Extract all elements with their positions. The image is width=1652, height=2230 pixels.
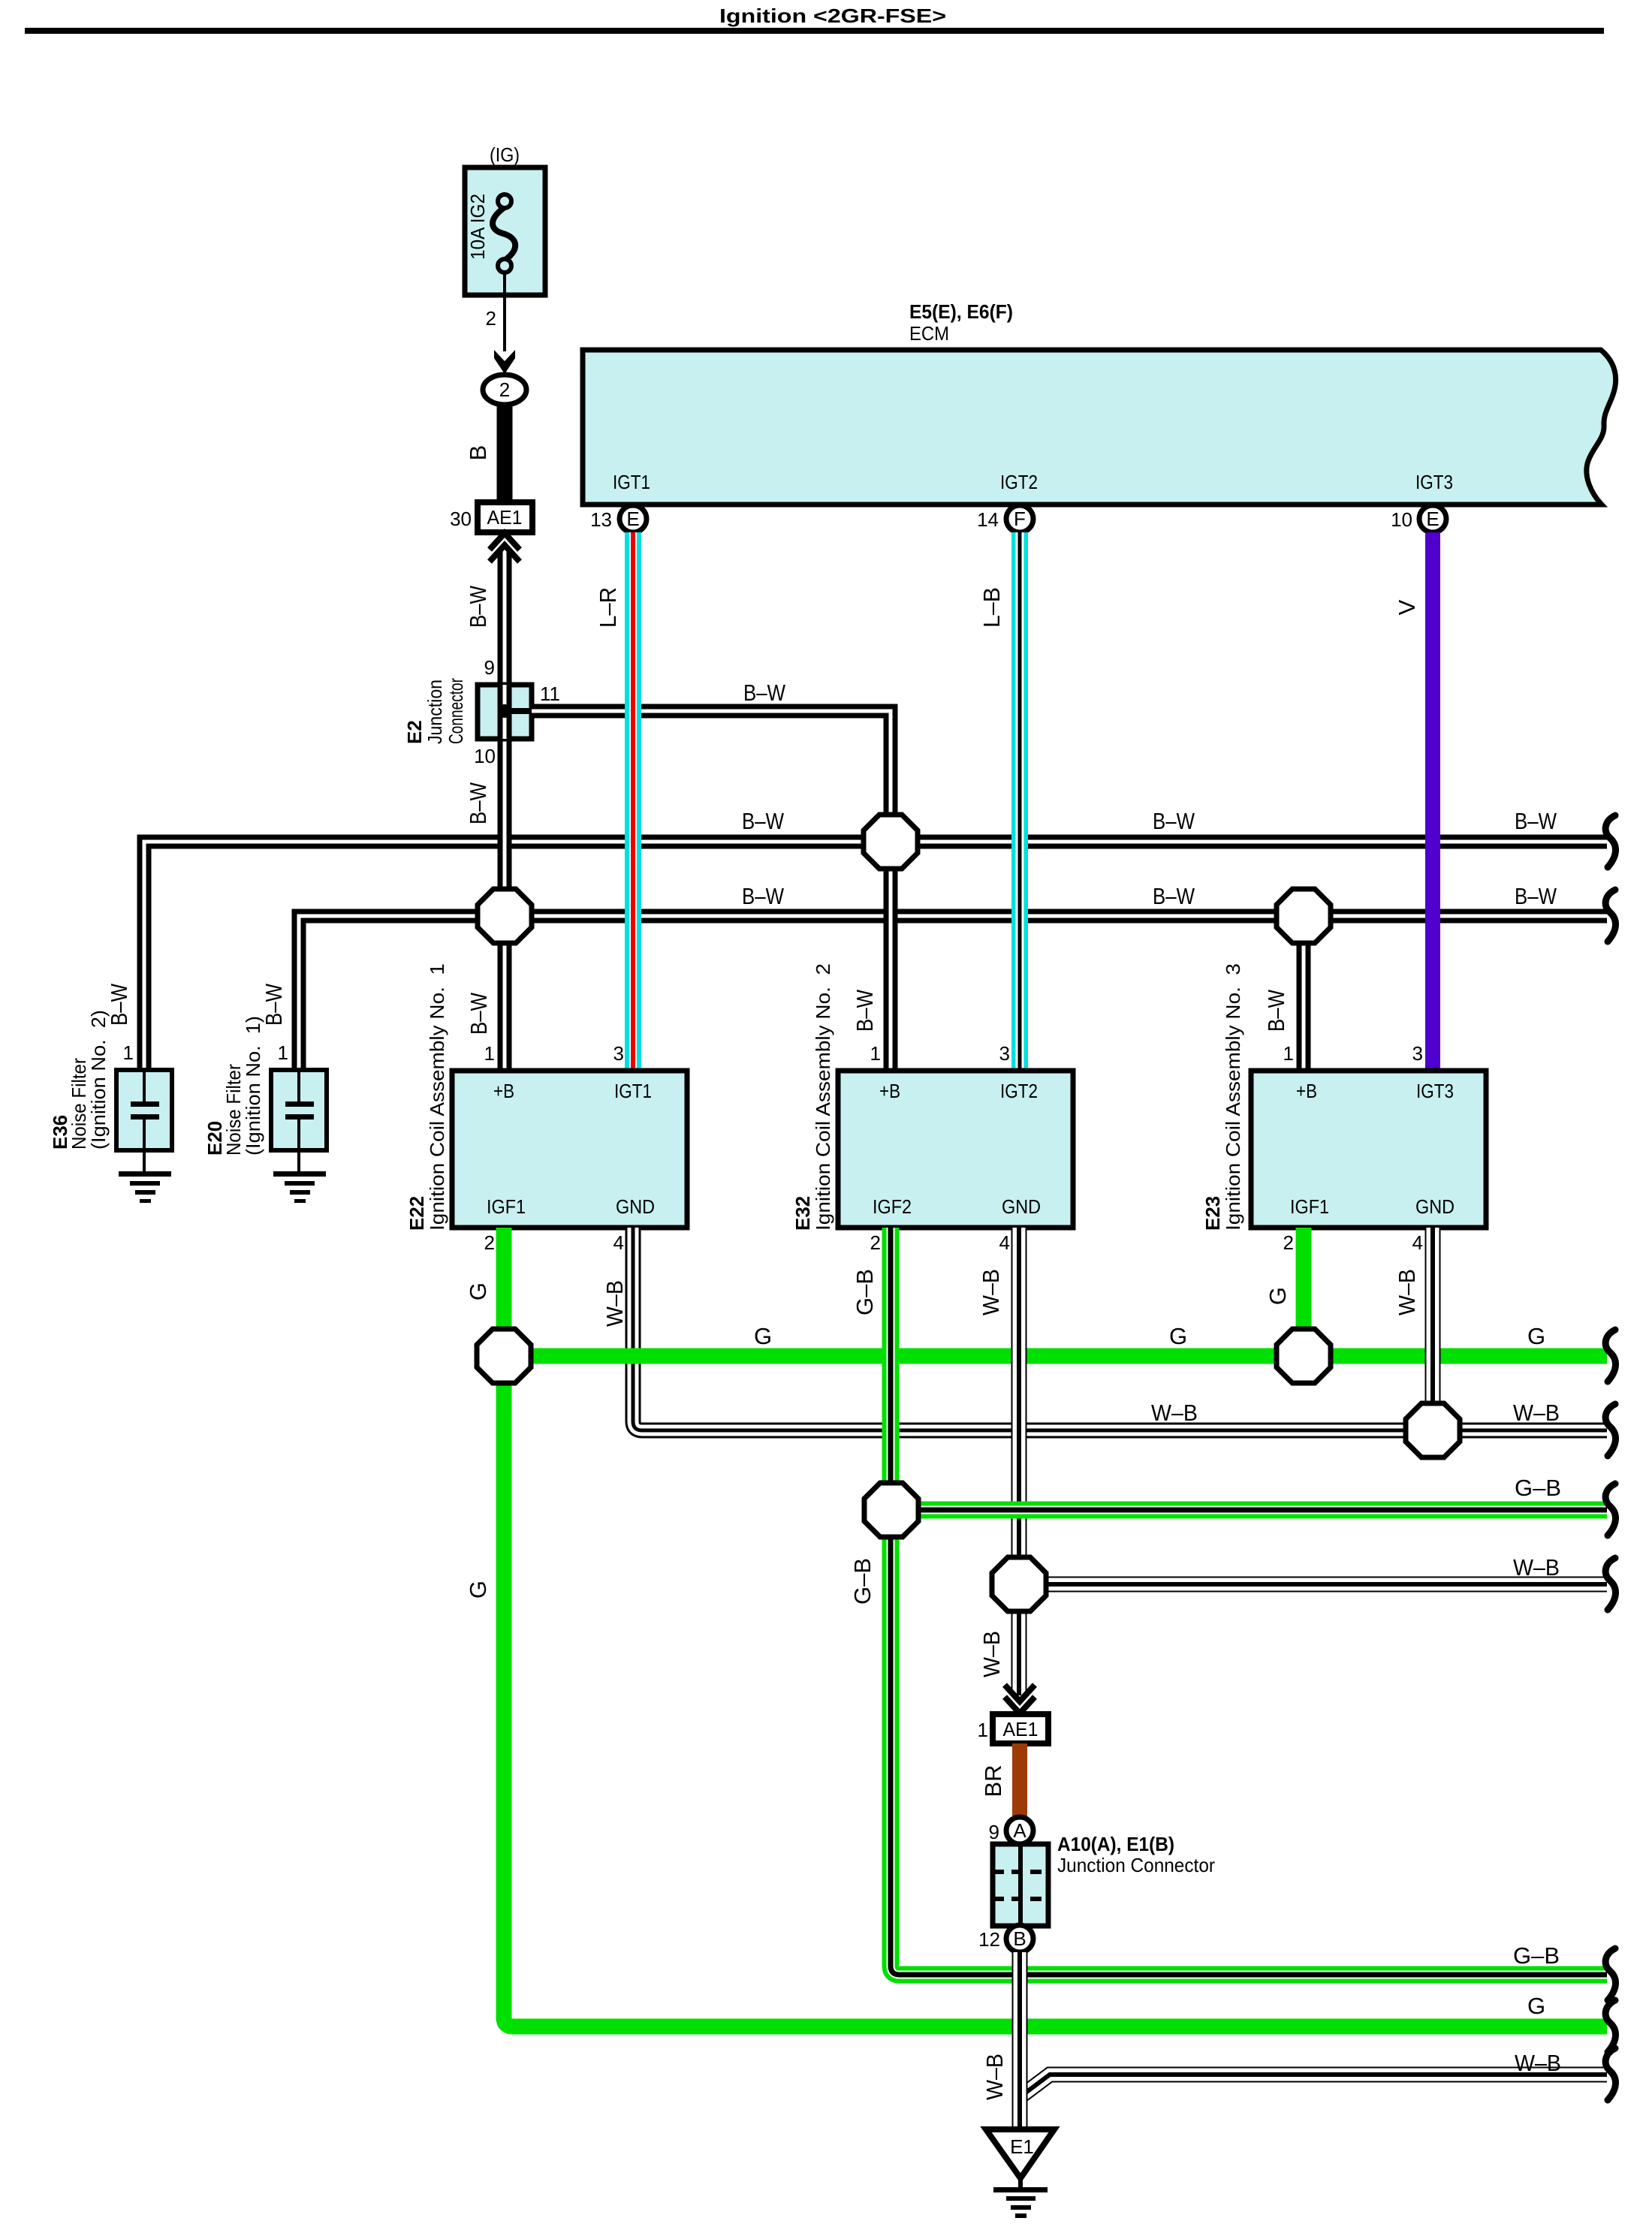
B-W wire from AE1 down to E2 and to coil1 [498, 551, 512, 1071]
E2 junction connector [478, 685, 532, 739]
svg-text:B–W: B–W [742, 808, 785, 834]
svg-text:+B: +B [1296, 1080, 1317, 1102]
wire V (IGT3) [1425, 532, 1440, 1071]
svg-text:9: 9 [989, 1821, 999, 1843]
svg-text:10A IG2: 10A IG2 [466, 194, 489, 260]
svg-text:Ignition <2GR-FSE>: Ignition <2GR-FSE> [719, 5, 946, 27]
wire break B-W upper [1605, 815, 1615, 867]
wire G horizontal middle [504, 1349, 1607, 1364]
svg-text:B–W: B–W [1153, 808, 1195, 834]
svg-text:(IG): (IG) [490, 143, 520, 166]
svg-text:2: 2 [499, 378, 510, 401]
svg-text:IGT2: IGT2 [1000, 1080, 1038, 1102]
svg-text:IGF1: IGF1 [487, 1195, 526, 1218]
svg-text:L–R: L–R [595, 587, 621, 628]
wire break W-B bottom [1605, 2048, 1615, 2100]
svg-text:G–B: G–B [1515, 1475, 1561, 1501]
svg-text:1: 1 [978, 1719, 988, 1741]
svg-text:13: 13 [590, 508, 612, 531]
octagon junction G at coil1 [477, 1329, 531, 1383]
svg-text:B–W: B–W [466, 992, 492, 1035]
ignition coil assembly no.2 box E32 [838, 1071, 1073, 1228]
svg-text:12: 12 [978, 1928, 1000, 1951]
svg-text:3: 3 [1412, 1042, 1423, 1065]
ECM pin circle 14 F [1006, 505, 1033, 532]
svg-text:B: B [465, 445, 491, 461]
svg-text:B–W: B–W [742, 883, 785, 909]
double chevron up arrow below AE1 [490, 533, 520, 562]
octagon junction on upper B-W at coil2 column [864, 815, 918, 869]
svg-text:IGT1: IGT1 [613, 471, 650, 493]
svg-text:G: G [465, 1581, 491, 1599]
svg-text:B–W: B–W [1515, 883, 1557, 909]
connector circle 9 A [1006, 1817, 1033, 1844]
octagon junction on lower B-W at coil1 [478, 889, 532, 943]
svg-text:GND: GND [1415, 1195, 1455, 1218]
svg-text:11: 11 [540, 683, 560, 705]
svg-text:10: 10 [474, 745, 496, 767]
svg-text:Ignition Coil Assembly No. 3: Ignition Coil Assembly No. 3 [1222, 963, 1244, 1231]
wire L-B (IGT2) [1011, 532, 1028, 1071]
ignition coil assembly no.3 box E23 [1251, 1071, 1486, 1228]
E2 wire through [498, 685, 512, 739]
svg-text:B–W: B–W [1263, 989, 1289, 1032]
wire W-B branch diagonal to horizontal bottom [1023, 2075, 1607, 2095]
B-W horizontal lower (to E20) [299, 916, 1607, 1071]
svg-text:Ignition Coil Assembly No. 1: Ignition Coil Assembly No. 1 [426, 963, 448, 1231]
svg-text:(Ignition No. 1): (Ignition No. 1) [242, 1016, 264, 1156]
svg-text:B–W: B–W [465, 782, 491, 824]
wire G-B from coil2 IGF2 down, corner right at bottom [891, 1228, 1607, 1975]
octagon junction on lower B-W at coil3 column [1277, 889, 1331, 943]
svg-text:AE1: AE1 [1003, 1718, 1039, 1740]
svg-text:IGT3: IGT3 [1416, 1080, 1454, 1102]
svg-text:Connector: Connector [445, 678, 467, 744]
svg-text:BR: BR [980, 1764, 1006, 1797]
wire W-B horizontal from junction to right [1019, 1577, 1607, 1593]
wire W-B from coil1 GND down then right [633, 1228, 1607, 1430]
wire L-R (IGT1) [625, 532, 641, 1071]
ECM box E5(E),E6(F) [583, 350, 1616, 505]
wire break G bottom [1605, 2000, 1615, 2052]
svg-text:2: 2 [870, 1231, 881, 1254]
ground of E20 [273, 1171, 326, 1203]
ground E1 triangle [986, 2129, 1054, 2178]
svg-text:G: G [1169, 1323, 1187, 1349]
svg-text:W–B: W–B [978, 1631, 1005, 1677]
svg-text:2: 2 [486, 307, 496, 330]
wire break G-B bottom [1605, 1948, 1615, 2000]
svg-text:G: G [1265, 1287, 1291, 1305]
svg-text:G–B: G–B [852, 1269, 878, 1315]
ECM pin circle 10 E [1419, 505, 1446, 532]
E2 stub and dot [505, 708, 532, 714]
svg-text:2: 2 [484, 1231, 495, 1254]
svg-text:Junction Connector: Junction Connector [1057, 1854, 1215, 1876]
svg-text:4: 4 [613, 1231, 624, 1254]
connector box 1 AE1 [993, 1714, 1048, 1743]
wire break W-B mid [1605, 1558, 1615, 1610]
svg-text:F: F [1014, 508, 1026, 530]
double chevron down arrow above AE1 [1005, 1685, 1035, 1713]
svg-text:A: A [1013, 1819, 1026, 1842]
wire break G-B [1605, 1484, 1615, 1535]
svg-text:G: G [754, 1323, 772, 1349]
svg-text:G: G [465, 1282, 491, 1300]
svg-text:IGT3: IGT3 [1415, 471, 1453, 493]
wire break W-B [1605, 1404, 1615, 1456]
svg-text:B–W: B–W [465, 585, 491, 628]
svg-text:L–B: L–B [978, 587, 1005, 628]
wire fuse to arrow [503, 272, 506, 351]
svg-text:14: 14 [977, 508, 999, 531]
svg-text:W–B: W–B [601, 1280, 628, 1327]
svg-text:IGF2: IGF2 [873, 1195, 912, 1218]
svg-text:1: 1 [123, 1041, 134, 1064]
svg-text:ECM: ECM [909, 322, 949, 345]
svg-text:30: 30 [450, 508, 472, 530]
svg-text:G–B: G–B [849, 1558, 876, 1605]
svg-text:E2: E2 [403, 720, 426, 744]
fuse element symbol [493, 194, 515, 273]
svg-text:W–B: W–B [1513, 1400, 1560, 1426]
octagon junction W-B at coil3 [1406, 1403, 1460, 1457]
svg-text:1: 1 [870, 1042, 881, 1065]
svg-text:W–B: W–B [978, 1269, 1004, 1315]
octagon junction G at coil3 [1277, 1329, 1331, 1383]
svg-text:2: 2 [1283, 1231, 1294, 1254]
noise filter E20 box [271, 1070, 327, 1174]
svg-text:B–W: B–W [1515, 808, 1557, 834]
svg-text:1: 1 [484, 1042, 495, 1065]
svg-text:W–B: W–B [1515, 2050, 1561, 2076]
ECM pin circle 13 E [619, 505, 647, 532]
redraw vertical B-W x1186 over horizontals [884, 751, 898, 1071]
svg-text:W–B: W–B [981, 2054, 1008, 2100]
svg-text:1: 1 [278, 1041, 288, 1064]
svg-text:G: G [1527, 1323, 1545, 1349]
redraw vertical B-W x672 over horizontals [498, 788, 512, 1071]
svg-text:B: B [1013, 1927, 1026, 1950]
svg-text:GND: GND [616, 1195, 655, 1218]
svg-text:E: E [1426, 508, 1439, 530]
svg-text:IGT2: IGT2 [1000, 471, 1038, 493]
svg-text:E5(E), E6(F): E5(E), E6(F) [909, 300, 1013, 323]
connector box 30 AE1 [478, 502, 532, 532]
B-W wire from E2 pin11 to right and down to coil2 [532, 711, 891, 1071]
wire G stub coil3 [1296, 1228, 1312, 1356]
svg-text:(Ignition No. 2): (Ignition No. 2) [87, 1010, 110, 1150]
connector circle 12 B [1006, 1925, 1033, 1952]
svg-text:G–B: G–B [1513, 1942, 1560, 1969]
svg-text:4: 4 [1412, 1231, 1423, 1254]
wire G from coil1 IGF1 down, corner right at bottom [504, 1228, 1607, 2027]
oval connector 2 [483, 375, 526, 405]
fuse 10A IG2 box [465, 167, 545, 295]
svg-text:B–W: B–W [106, 983, 132, 1026]
octagon junction W-B mid [992, 1557, 1046, 1611]
svg-text:1: 1 [1283, 1042, 1294, 1065]
wire W-B from circle B down to E1 [1012, 1952, 1028, 2127]
svg-text:GND: GND [1002, 1195, 1041, 1218]
svg-text:G: G [1527, 1993, 1545, 2019]
svg-text:E32: E32 [791, 1196, 814, 1231]
wire B (thick black) [497, 405, 513, 502]
svg-text:IGT1: IGT1 [614, 1080, 652, 1102]
svg-text:3: 3 [613, 1042, 624, 1065]
svg-text:Ignition Coil Assembly No. 2: Ignition Coil Assembly No. 2 [812, 963, 834, 1231]
svg-text:Junction: Junction [424, 680, 446, 744]
wire G stub coil3 IGF1 handled above; wire W-B stub coil3 GND [1425, 1228, 1441, 1430]
ground E1 bars [993, 2176, 1048, 2218]
wire break G [1605, 1330, 1615, 1382]
svg-text:B–W: B–W [1153, 883, 1195, 909]
svg-text:E: E [626, 508, 639, 530]
wire BR [1012, 1743, 1027, 1817]
svg-text:9: 9 [484, 656, 495, 679]
octagon junction G-B [864, 1483, 918, 1537]
svg-text:B–W: B–W [261, 983, 287, 1026]
svg-text:V: V [1394, 599, 1420, 615]
svg-text:+B: +B [493, 1080, 514, 1102]
wire break B-W lower [1605, 890, 1615, 942]
svg-text:AE1: AE1 [487, 506, 523, 529]
wire W-B from coil2 GND down to arrow [1011, 1228, 1027, 1695]
svg-text:A10(A), E1(B): A10(A), E1(B) [1057, 1833, 1174, 1855]
B-W stub to coil3 [1297, 916, 1311, 1071]
svg-text:E23: E23 [1201, 1196, 1224, 1231]
svg-text:W–B: W–B [1394, 1269, 1420, 1315]
svg-text:+B: +B [879, 1080, 900, 1102]
noise filter E36 box [116, 1070, 172, 1174]
junction connector A10(A),E1(B) [993, 1844, 1048, 1926]
svg-text:IGF1: IGF1 [1290, 1195, 1329, 1218]
arrow down to connector 2 [494, 350, 515, 374]
title rule [25, 28, 1604, 34]
svg-text:4: 4 [999, 1231, 1010, 1254]
svg-text:E1: E1 [1010, 2135, 1034, 2158]
svg-text:3: 3 [999, 1042, 1010, 1065]
svg-text:W–B: W–B [1513, 1554, 1560, 1581]
svg-text:B–W: B–W [852, 989, 878, 1032]
svg-text:W–B: W–B [1151, 1400, 1198, 1426]
wire G-B horizontal from junction to right [891, 1502, 1607, 1519]
ignition coil assembly no.1 box E22 [452, 1071, 687, 1228]
svg-text:B–W: B–W [743, 680, 786, 706]
ground of E36 [119, 1171, 171, 1203]
svg-text:E22: E22 [405, 1196, 428, 1231]
B-W horizontal upper (to E36) [144, 842, 1607, 1071]
svg-text:10: 10 [1391, 508, 1412, 531]
